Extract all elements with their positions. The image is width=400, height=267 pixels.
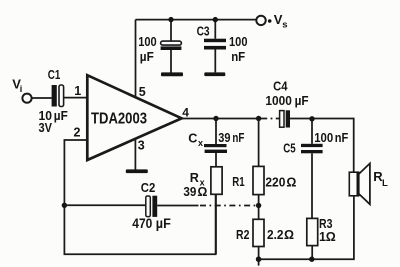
svg-text:2: 2 xyxy=(74,125,81,139)
svg-text:R: R xyxy=(190,171,199,185)
svg-text:3: 3 xyxy=(138,139,145,153)
svg-text:C1: C1 xyxy=(48,68,61,82)
svg-text:39: 39 xyxy=(218,131,230,145)
svg-text:R1: R1 xyxy=(232,175,244,189)
svg-text:nF: nF xyxy=(335,131,349,145)
svg-text:x: x xyxy=(198,138,203,148)
svg-text:R2: R2 xyxy=(236,228,249,242)
svg-text:220: 220 xyxy=(265,175,285,189)
svg-text:µF: µF xyxy=(54,109,68,123)
svg-text:5: 5 xyxy=(139,85,146,99)
svg-text:R3: R3 xyxy=(319,217,333,231)
svg-text:39: 39 xyxy=(183,185,196,199)
svg-text:C5: C5 xyxy=(283,142,295,156)
svg-text:nF: nF xyxy=(232,131,244,145)
svg-text:100: 100 xyxy=(314,131,333,145)
svg-text:2.2: 2.2 xyxy=(267,228,284,242)
svg-text:nF: nF xyxy=(231,50,245,64)
svg-text:C3: C3 xyxy=(197,25,210,39)
svg-text:Ω: Ω xyxy=(326,230,336,244)
svg-text:C2: C2 xyxy=(141,181,156,195)
svg-text:470: 470 xyxy=(132,216,152,231)
svg-text:µF: µF xyxy=(140,50,154,64)
svg-text:1000: 1000 xyxy=(265,94,292,108)
svg-text:s: s xyxy=(282,20,287,31)
svg-text:µF: µF xyxy=(156,216,171,231)
svg-text:3V: 3V xyxy=(39,121,53,135)
svg-text:Ω: Ω xyxy=(286,175,296,189)
svg-text:µF: µF xyxy=(295,94,309,108)
svg-text:i: i xyxy=(20,84,23,94)
svg-text:1: 1 xyxy=(74,84,81,98)
svg-text:Ω: Ω xyxy=(284,228,294,242)
svg-text:Ω: Ω xyxy=(197,185,207,199)
svg-text:100: 100 xyxy=(138,35,157,49)
svg-text:100: 100 xyxy=(229,35,248,49)
svg-text:C4: C4 xyxy=(273,79,287,93)
svg-text:L: L xyxy=(382,178,388,189)
svg-text:C: C xyxy=(188,131,197,145)
svg-text:4: 4 xyxy=(182,106,189,120)
svg-text:TDA2003: TDA2003 xyxy=(91,110,147,127)
